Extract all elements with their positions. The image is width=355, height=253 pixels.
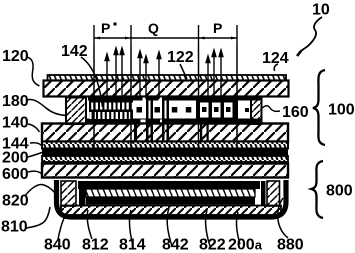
svg-text:200: 200 bbox=[2, 150, 29, 167]
right tray column bbox=[267, 181, 280, 206]
svg-text:842: 842 bbox=[162, 237, 189, 253]
leader 122 bbox=[180, 64, 187, 79]
layer 144 (rope) bbox=[42, 142, 288, 149]
brace 800 bbox=[312, 161, 324, 218]
cell row bbox=[66, 98, 262, 153]
leader 160 bbox=[262, 106, 280, 112]
left barrier rib column bbox=[66, 98, 86, 125]
leader 200 bbox=[28, 153, 42, 158]
leader 140 bbox=[28, 124, 40, 132]
dimension line bbox=[94, 25, 237, 46]
svg-text:822: 822 bbox=[199, 237, 226, 253]
svg-text:10: 10 bbox=[312, 2, 330, 19]
P cell block bbox=[196, 98, 238, 125]
svg-text:180: 180 bbox=[2, 93, 29, 110]
light arrows bbox=[105, 48, 223, 99]
svg-text:160: 160 bbox=[282, 104, 309, 121]
inner rope strip bbox=[86, 189, 255, 197]
svg-text:812: 812 bbox=[82, 237, 109, 253]
svg-text:P: P bbox=[101, 20, 110, 36]
leader 810 bbox=[26, 207, 50, 228]
leader 120 bbox=[27, 57, 40, 86]
layer 140 bbox=[42, 124, 288, 142]
inner stack left cap bbox=[79, 181, 86, 207]
svg-text:600: 600 bbox=[2, 166, 29, 183]
svg-text:810: 810 bbox=[1, 219, 28, 236]
rope strip 2 bbox=[42, 156, 288, 162]
layer 200 (black) bbox=[42, 149, 288, 157]
divider bar right of comb bbox=[134, 124, 137, 147]
module 800 outer case 810 bbox=[57, 180, 287, 217]
Q dividers (extend down into 140) bbox=[146, 98, 169, 148]
svg-text:800: 800 bbox=[326, 183, 353, 200]
svg-text:100: 100 bbox=[328, 102, 355, 119]
Q cell dots bbox=[137, 107, 143, 113]
leader 144 bbox=[30, 143, 42, 146]
leader 822 bbox=[206, 210, 210, 246]
leader 820 bbox=[25, 184, 58, 197]
inner stack top black strip bbox=[78, 181, 260, 189]
leader 124 bbox=[274, 64, 278, 71]
bottom pad band bbox=[85, 119, 261, 125]
leader 880 bbox=[278, 198, 288, 238]
svg-text:124: 124 bbox=[262, 50, 289, 67]
layer 120 substrate (hatch) bbox=[44, 81, 289, 97]
svg-text:880: 880 bbox=[277, 237, 304, 253]
svg-text:840: 840 bbox=[44, 237, 71, 253]
top electrode band bbox=[88, 98, 261, 101]
right barrier rib column 160 bbox=[251, 98, 262, 125]
leader 814 bbox=[130, 210, 133, 246]
svg-text:200a: 200a bbox=[228, 237, 263, 253]
leader 180 bbox=[27, 100, 66, 116]
electrode blob under P block bbox=[198, 146, 225, 153]
inner black strip bbox=[86, 197, 255, 205]
P block under-bars bbox=[200, 124, 202, 148]
layer 120 top strip (rope) bbox=[48, 75, 287, 81]
leader 812 bbox=[87, 210, 92, 239]
module bottom plate (hatch tray) bbox=[61, 206, 281, 216]
leader 840 bbox=[58, 211, 68, 239]
comb block 142/180 bbox=[89, 98, 133, 125]
vertical guides bbox=[94, 46, 237, 148]
layer 600 bbox=[42, 164, 288, 178]
leader 10 squiggle bbox=[298, 17, 322, 55]
dimension arrow ticks bbox=[95, 37, 236, 40]
svg-text:120: 120 bbox=[2, 48, 29, 65]
svg-text:Q: Q bbox=[148, 20, 159, 36]
svg-text:122: 122 bbox=[167, 49, 194, 66]
dot right of P block bbox=[245, 108, 249, 112]
left tray column bbox=[61, 181, 76, 206]
svg-text:P: P bbox=[213, 20, 222, 36]
leader 842 bbox=[167, 208, 172, 246]
svg-text:142: 142 bbox=[61, 43, 88, 60]
svg-text:140: 140 bbox=[2, 115, 29, 132]
right divider bar 880 bbox=[261, 181, 266, 206]
leader 200a bbox=[237, 212, 240, 244]
leader 142 bbox=[81, 57, 103, 107]
brace 100 bbox=[313, 70, 325, 145]
leader 600 bbox=[28, 171, 42, 174]
